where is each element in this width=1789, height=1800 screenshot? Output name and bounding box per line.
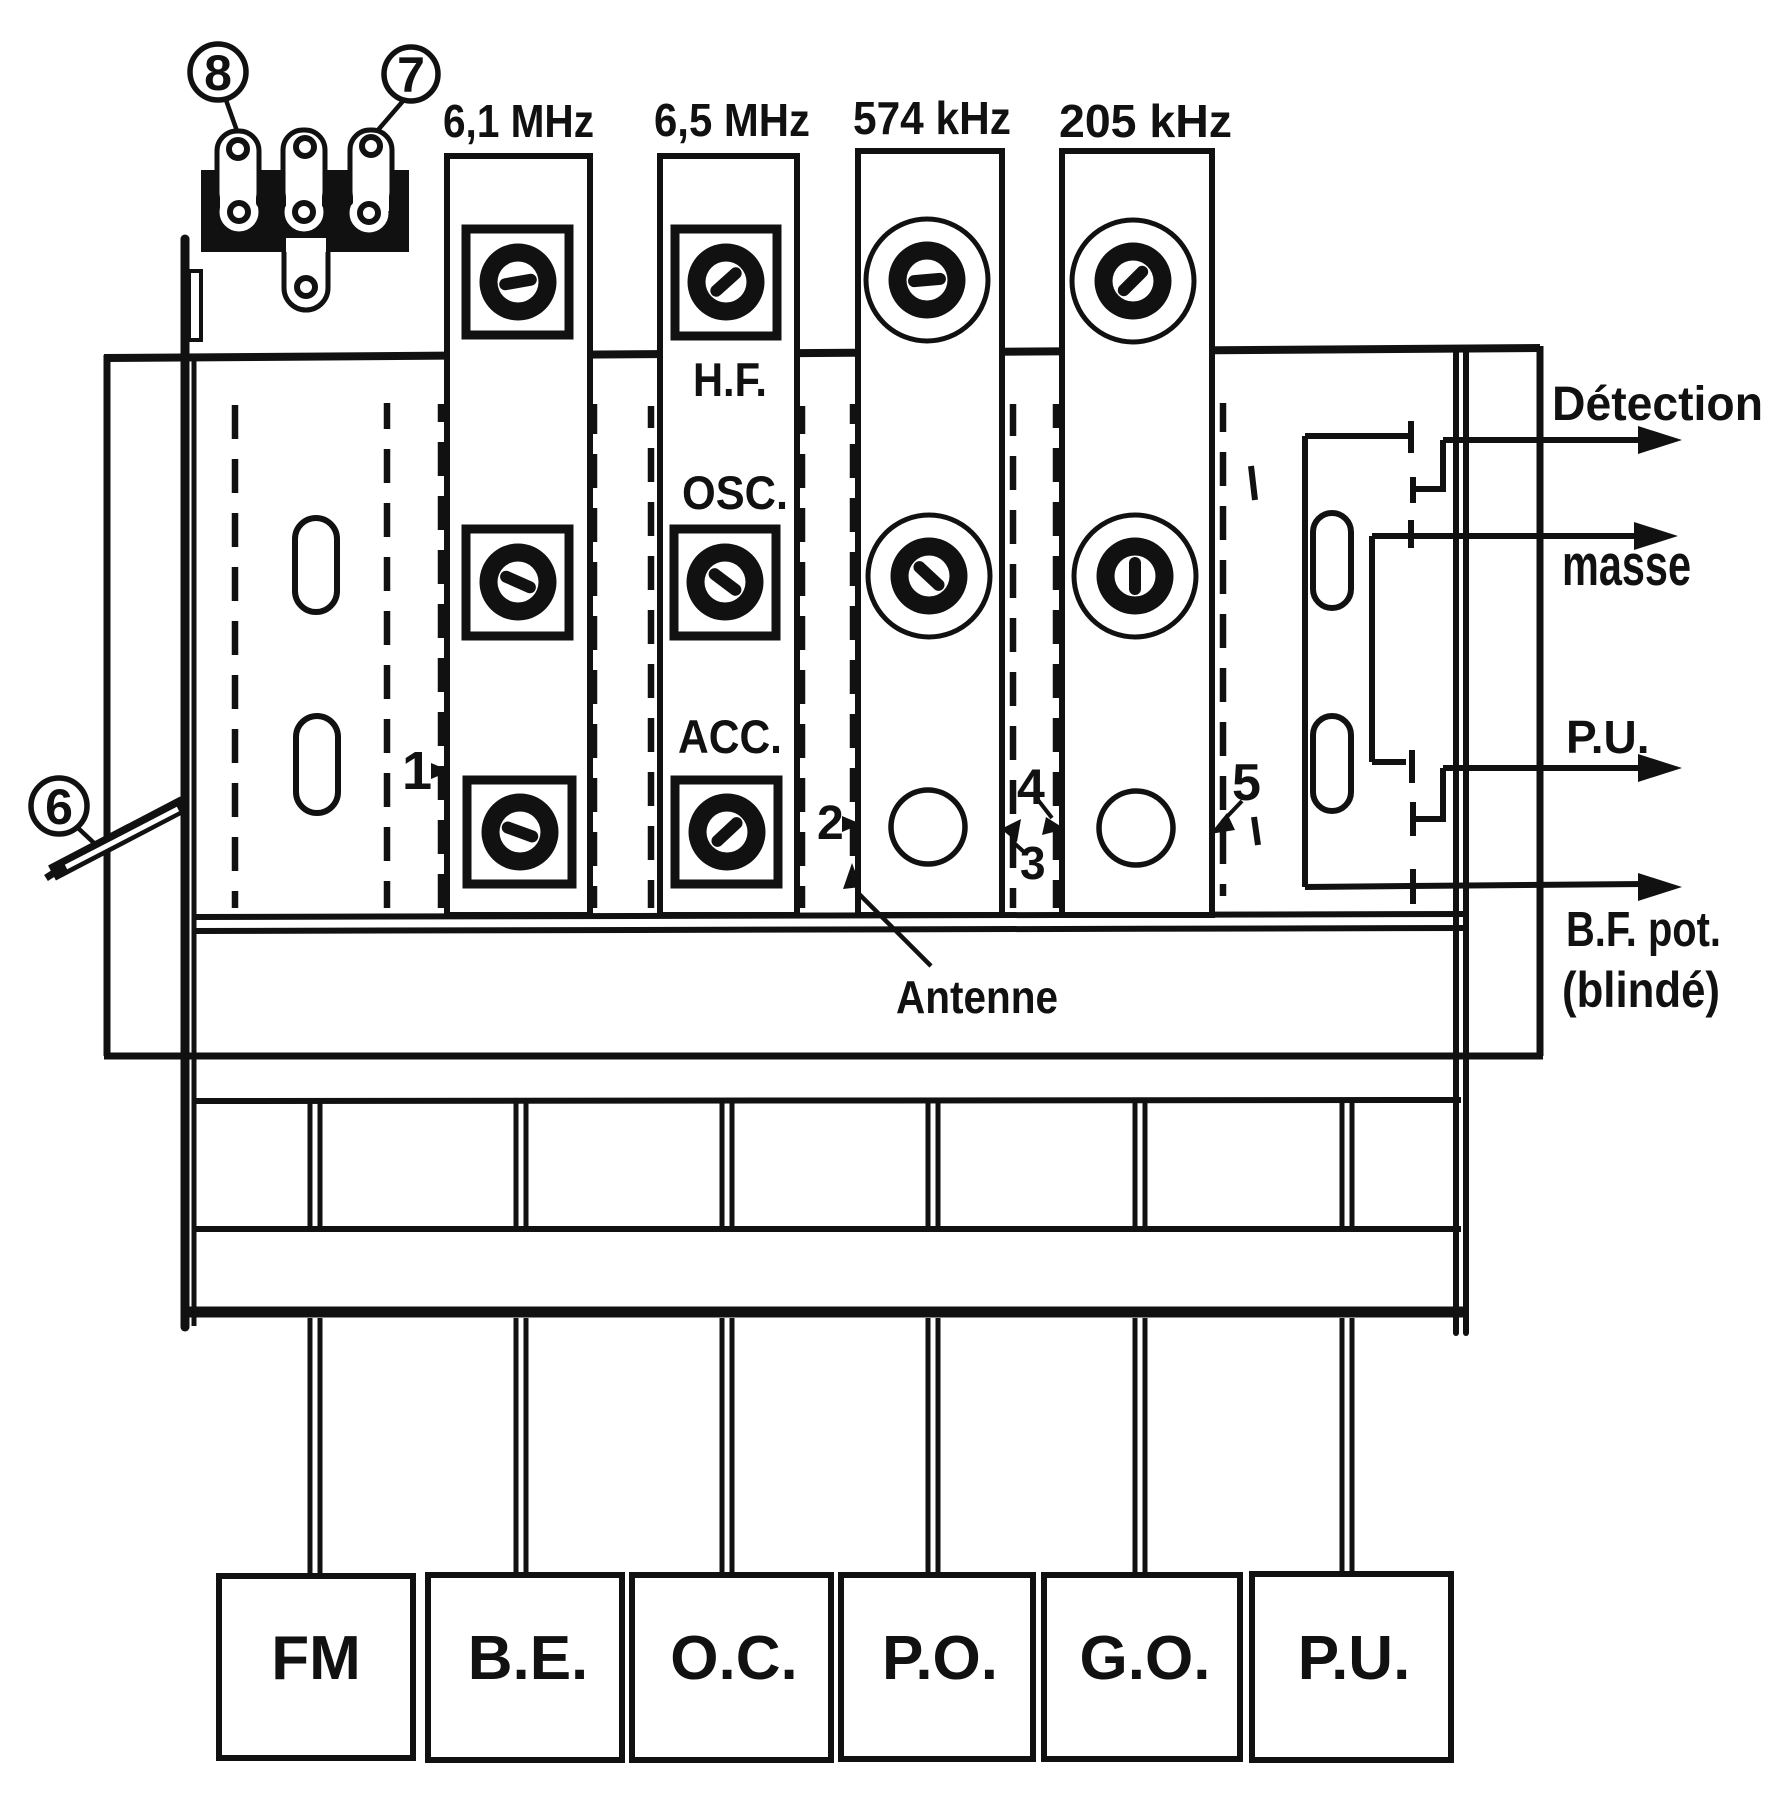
bf arrow wire (bracket bottom edge) xyxy=(1305,884,1644,887)
bracket oval slot B xyxy=(1313,716,1351,811)
svg-text:G.O.: G.O. xyxy=(1080,1624,1211,1693)
switch box GO xyxy=(1044,1575,1240,1759)
inner bracket left edge xyxy=(1369,536,1375,762)
svg-text:O.C.: O.C. xyxy=(670,1624,797,1693)
panel left edge xyxy=(192,357,197,1326)
contact T-bar pu upper xyxy=(1409,750,1415,783)
left panel oval slot A xyxy=(295,518,337,612)
contact T-bar bf xyxy=(1410,869,1416,904)
svg-text:P.U.: P.U. xyxy=(1566,711,1650,763)
trimmer 205 mid (round) xyxy=(1074,515,1196,637)
trimmer 6,1 HF (square) xyxy=(466,229,569,335)
svg-text:574 kHz: 574 kHz xyxy=(853,92,1011,144)
column 205 kHz xyxy=(1062,151,1212,915)
chassis outer box xyxy=(104,346,1543,1056)
column 6,5 MHz xyxy=(660,156,797,915)
svg-text:(blindé): (blindé) xyxy=(1562,962,1720,1018)
bracket oval slot A xyxy=(1313,513,1351,608)
trimmer 6,5 HF (square) xyxy=(675,229,777,336)
rung 6 xyxy=(1342,1103,1352,1227)
switch box PO xyxy=(841,1575,1033,1759)
svg-text:P.U.: P.U. xyxy=(1298,1624,1411,1693)
trimmer 6,1 ACC (square) xyxy=(467,780,572,884)
tick mark lower xyxy=(1254,817,1258,845)
wire to BE switch xyxy=(516,1318,526,1576)
bracket left edge xyxy=(1302,436,1308,887)
svg-text:P.O.: P.O. xyxy=(882,1624,998,1693)
wire to GO switch xyxy=(1135,1318,1145,1576)
dashed wafer line 6 xyxy=(799,406,806,908)
bracket top edge xyxy=(1305,433,1408,439)
svg-text:1: 1 xyxy=(402,741,432,801)
trimmer 205 top (round) xyxy=(1072,220,1194,342)
ladder bar B xyxy=(196,1226,1461,1232)
svg-text:3: 3 xyxy=(1020,837,1046,889)
rung 1 xyxy=(310,1103,320,1227)
dashed wafer line 8 xyxy=(1010,404,1017,908)
dashed wafer line 3 xyxy=(438,404,445,908)
hole 205 bottom xyxy=(1099,791,1173,865)
contact T-bar pu lower xyxy=(1410,802,1416,836)
ladder bottom bar xyxy=(189,1307,1463,1318)
dashed wafer line 2 xyxy=(384,403,391,908)
svg-text:masse: masse xyxy=(1562,533,1691,598)
rung 5 xyxy=(1135,1103,1145,1227)
panel bottom double line xyxy=(194,914,1468,931)
rung 3 xyxy=(722,1103,732,1227)
callout circle 8 xyxy=(190,44,246,131)
wire to OC switch xyxy=(722,1318,732,1576)
wire to PO switch xyxy=(928,1318,938,1576)
callout circle 7 xyxy=(378,47,438,130)
dashed wafer line 4 xyxy=(591,404,598,908)
detection step wire xyxy=(1416,440,1443,489)
terminal strip body xyxy=(201,170,409,252)
svg-text:7: 7 xyxy=(397,47,425,103)
svg-text:205 kHz: 205 kHz xyxy=(1059,95,1232,147)
svg-text:6: 6 xyxy=(45,779,73,835)
shaft lug tab xyxy=(189,271,201,340)
svg-text:8: 8 xyxy=(204,45,232,101)
trimmer 574 top (round) xyxy=(866,219,988,341)
svg-text:6,5 MHz: 6,5 MHz xyxy=(654,94,810,146)
panel right edge double line xyxy=(1456,352,1466,1333)
column 6,1 MHz xyxy=(447,156,590,915)
solder lug middle xyxy=(282,130,328,310)
svg-text:ACC.: ACC. xyxy=(678,710,782,763)
switch box FM xyxy=(219,1576,413,1758)
rung 4 xyxy=(928,1103,938,1227)
callout circle 6 xyxy=(31,778,94,843)
svg-text:FM: FM xyxy=(271,1624,361,1693)
hole 574 bottom xyxy=(891,790,965,864)
trimmer 574 mid (round) xyxy=(868,515,990,637)
trimmer 6,5 ACC (square) xyxy=(675,780,778,884)
svg-text:B.E.: B.E. xyxy=(468,1624,589,1693)
tick mark upper xyxy=(1251,466,1255,500)
wire to FM switch xyxy=(310,1318,320,1576)
switch box PU xyxy=(1252,1574,1451,1760)
dashed wafer line 9 xyxy=(1053,404,1060,908)
svg-text:6,1 MHz: 6,1 MHz xyxy=(443,95,594,147)
dashed wafer line 5 xyxy=(648,406,655,908)
solder lug right xyxy=(347,130,392,235)
dashed wafer line 1 xyxy=(232,405,239,908)
svg-text:Détection: Détection xyxy=(1552,378,1763,431)
contact T-bar det upper xyxy=(1408,421,1414,453)
inner bracket bottom edge xyxy=(1372,759,1406,765)
left panel oval slot B xyxy=(296,716,338,813)
column 574 kHz xyxy=(858,151,1002,915)
dashed wafer line 10 xyxy=(1220,403,1227,896)
pu arrow wire xyxy=(1443,765,1644,771)
alignment tool probe xyxy=(46,804,184,878)
antenne leader wire xyxy=(858,893,931,966)
svg-text:B.F. pot.: B.F. pot. xyxy=(1566,903,1721,957)
switch box BE xyxy=(428,1575,622,1760)
trimmer 6,5 OSC (square) xyxy=(674,529,776,636)
svg-text:2: 2 xyxy=(817,797,844,850)
svg-text:OSC.: OSC. xyxy=(682,466,788,519)
pu step wire xyxy=(1416,768,1443,819)
switch box OC xyxy=(632,1575,831,1760)
contact T-bar det lower xyxy=(1410,477,1416,503)
solder lug left xyxy=(217,131,261,234)
svg-text:H.F.: H.F. xyxy=(693,353,767,406)
wire to PU switch xyxy=(1342,1318,1352,1576)
detection arrow wire xyxy=(1443,437,1644,443)
masse arrow wire xyxy=(1372,533,1640,539)
trimmer 6,1 OSC (square) xyxy=(466,529,569,636)
svg-text:Antenne: Antenne xyxy=(896,971,1058,1023)
rung 2 xyxy=(516,1103,526,1227)
svg-text:5: 5 xyxy=(1232,754,1261,812)
dashed wafer line 7 xyxy=(850,404,857,884)
ladder bar A xyxy=(196,1100,1461,1101)
dial shaft xyxy=(181,239,190,1327)
contact T-bar masse xyxy=(1408,520,1414,548)
